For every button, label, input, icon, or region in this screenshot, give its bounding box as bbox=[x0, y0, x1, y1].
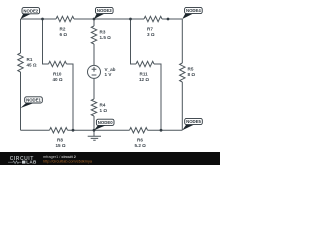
svg-text:R11: R11 bbox=[140, 72, 149, 77]
junction top-left (R10 branch) bbox=[41, 18, 44, 21]
svg-text:R2: R2 bbox=[60, 27, 66, 32]
svg-text:NODE3: NODE3 bbox=[97, 8, 112, 13]
svg-text:NODE4: NODE4 bbox=[186, 8, 201, 13]
svg-text:R7: R7 bbox=[147, 27, 153, 32]
svg-text:R10: R10 bbox=[53, 72, 62, 77]
footer bar bbox=[0, 152, 220, 165]
resistor R1 bbox=[18, 53, 37, 72]
wire right rail bbox=[181, 19, 183, 130]
svg-text:http://circuitlab.com/c6dkmya: http://circuitlab.com/c6dkmya bbox=[43, 159, 93, 163]
svg-text:15 Ω: 15 Ω bbox=[56, 143, 66, 148]
resistor R5 bbox=[180, 63, 196, 82]
svg-text:NODE1: NODE1 bbox=[26, 98, 41, 103]
ground bbox=[88, 130, 101, 140]
resistor R4 bbox=[91, 99, 107, 116]
node NODE0 bbox=[94, 119, 114, 130]
node NODE5 bbox=[182, 118, 202, 130]
svg-text:1.5 Ω: 1.5 Ω bbox=[100, 35, 112, 40]
svg-text:mfrager1 / circuit 2: mfrager1 / circuit 2 bbox=[43, 155, 76, 159]
svg-text:12 Ω: 12 Ω bbox=[139, 77, 149, 82]
voltage source V_ab bbox=[88, 65, 116, 78]
wire left rail bbox=[20, 19, 22, 130]
svg-text:1 V: 1 V bbox=[105, 72, 113, 77]
resistor R11 bbox=[136, 61, 154, 82]
resistor R7 bbox=[144, 16, 162, 37]
svg-text:5.2 Ω: 5.2 Ω bbox=[135, 143, 147, 148]
svg-text:NODE2: NODE2 bbox=[23, 8, 38, 13]
junction R11 branch bbox=[129, 18, 132, 21]
resistor R3 bbox=[91, 26, 111, 44]
svg-text:3 Ω: 3 Ω bbox=[147, 32, 155, 37]
svg-text:45 Ω: 45 Ω bbox=[27, 63, 37, 68]
svg-text:R6: R6 bbox=[137, 138, 143, 143]
node NODE4 bbox=[182, 7, 202, 19]
wire R11 branch bbox=[131, 19, 162, 130]
svg-text:8 Ω: 8 Ω bbox=[188, 72, 196, 77]
wire R10 branch bbox=[43, 19, 74, 130]
resistor R2 bbox=[56, 16, 74, 37]
svg-text:R3: R3 bbox=[100, 30, 106, 35]
junction bottom R10 branch bbox=[72, 129, 75, 132]
svg-text:LAB: LAB bbox=[26, 159, 37, 164]
svg-text:R8: R8 bbox=[57, 138, 63, 143]
wire middle branch bbox=[93, 19, 95, 130]
svg-text:NODE0: NODE0 bbox=[98, 120, 113, 125]
resistor R6 bbox=[130, 128, 148, 149]
wire top rail bbox=[21, 18, 183, 20]
svg-text:40 Ω: 40 Ω bbox=[53, 77, 63, 82]
junction bottom R11 branch bbox=[160, 129, 163, 132]
footer CircuitLab logo bbox=[8, 156, 37, 164]
node NODE3 bbox=[94, 7, 113, 19]
svg-text:1 Ω: 1 Ω bbox=[100, 108, 108, 113]
node NODE2 bbox=[21, 8, 40, 19]
svg-text:NODE5: NODE5 bbox=[186, 119, 201, 124]
node NODE1 bbox=[21, 97, 43, 108]
resistor R8 bbox=[50, 128, 68, 149]
svg-text:6 Ω: 6 Ω bbox=[60, 32, 68, 37]
resistor R10 bbox=[49, 61, 67, 82]
junction node0 ground bbox=[93, 129, 96, 132]
svg-text:R4: R4 bbox=[100, 103, 106, 108]
junction node3 bbox=[93, 18, 96, 21]
svg-text:R1: R1 bbox=[27, 57, 33, 62]
junction top-right wire join bbox=[167, 18, 170, 21]
wire bottom rail bbox=[21, 129, 183, 131]
svg-text:R5: R5 bbox=[188, 67, 194, 72]
